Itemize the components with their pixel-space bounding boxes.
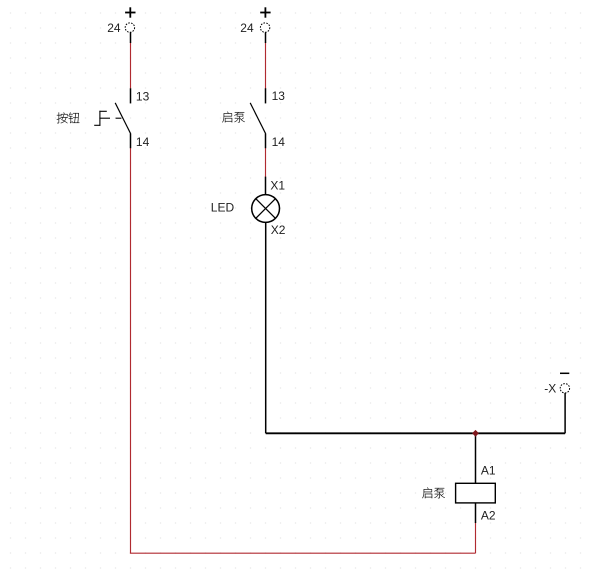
- svg-text:13: 13: [272, 89, 286, 103]
- svg-text:14: 14: [136, 135, 150, 149]
- svg-text:24: 24: [107, 21, 121, 35]
- svg-text:X2: X2: [271, 223, 286, 237]
- svg-text:A1: A1: [481, 464, 496, 478]
- svg-text:-X: -X: [544, 381, 556, 395]
- svg-text:LED: LED: [211, 201, 235, 215]
- svg-text:24: 24: [240, 21, 254, 35]
- svg-text:14: 14: [272, 135, 286, 149]
- svg-text:A2: A2: [481, 509, 496, 523]
- svg-text:13: 13: [136, 90, 150, 104]
- svg-text:X1: X1: [270, 179, 285, 193]
